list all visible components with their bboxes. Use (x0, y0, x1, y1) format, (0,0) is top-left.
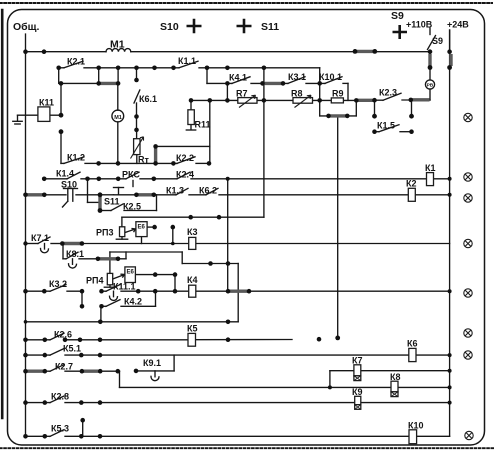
svg-text:К2: К2 (406, 179, 417, 189)
svg-text:R7: R7 (236, 89, 248, 99)
svg-text:РП3: РП3 (96, 228, 113, 238)
svg-text:К5.3: К5.3 (51, 424, 69, 434)
svg-text:К3.2: К3.2 (49, 279, 67, 289)
svg-text:+24В: +24В (447, 20, 469, 30)
svg-text:К7: К7 (352, 356, 363, 366)
svg-text:К10.1: К10.1 (319, 72, 342, 82)
svg-text:К11.1: К11.1 (113, 282, 136, 292)
svg-text:К10: К10 (408, 421, 424, 431)
svg-text:К2.4: К2.4 (176, 170, 194, 180)
svg-text:К1.4: К1.4 (56, 169, 74, 179)
svg-text:К6.1: К6.1 (139, 94, 157, 104)
svg-text:К1.2: К1.2 (67, 153, 85, 163)
svg-text:К8.1: К8.1 (66, 249, 84, 259)
svg-text:К2.6: К2.6 (54, 330, 72, 340)
svg-text:К6: К6 (407, 339, 418, 349)
svg-text:К3: К3 (187, 227, 198, 237)
svg-text:К2.1: К2.1 (67, 57, 85, 67)
svg-text:S10: S10 (61, 180, 77, 190)
svg-text:К4.2: К4.2 (124, 297, 142, 307)
svg-text:R9: R9 (332, 89, 344, 99)
svg-text:S11: S11 (261, 21, 279, 33)
svg-text:Общ.: Общ. (13, 21, 40, 33)
svg-text:К1.3: К1.3 (166, 186, 184, 196)
svg-text:К11: К11 (39, 98, 54, 108)
svg-text:К7.1: К7.1 (31, 233, 49, 243)
svg-text:Е6: Е6 (127, 270, 135, 276)
svg-text:К2.3: К2.3 (379, 88, 397, 98)
svg-text:К1.1: К1.1 (178, 56, 196, 66)
svg-text:К9: К9 (352, 387, 363, 397)
svg-text:К2.5: К2.5 (123, 202, 141, 212)
svg-text:К5.1: К5.1 (63, 344, 81, 354)
svg-text:К5: К5 (187, 324, 198, 334)
svg-text:S9: S9 (432, 36, 443, 46)
svg-text:К2.7: К2.7 (55, 362, 73, 372)
svg-text:К6.2: К6.2 (199, 186, 217, 196)
svg-text:К4.1: К4.1 (229, 73, 247, 83)
svg-text:РКС: РКС (122, 170, 140, 180)
svg-text:К2.2: К2.2 (176, 153, 194, 163)
svg-text:S10: S10 (160, 21, 179, 33)
svg-text:К1: К1 (425, 163, 436, 173)
svg-text:К8: К8 (390, 372, 401, 382)
svg-text:+110В: +110В (406, 20, 433, 30)
svg-text:РП4: РП4 (86, 276, 103, 286)
svg-text:S11: S11 (104, 197, 120, 207)
svg-text:РВ: РВ (427, 83, 434, 89)
svg-text:М1: М1 (114, 115, 122, 121)
svg-text:К2.8: К2.8 (51, 392, 69, 402)
svg-text:М1: М1 (110, 39, 125, 51)
svg-text:S9: S9 (391, 10, 404, 22)
svg-text:т: т (145, 155, 150, 165)
svg-text:К1.5: К1.5 (377, 121, 395, 131)
svg-text:К3.1: К3.1 (288, 72, 306, 82)
svg-text:R8: R8 (291, 89, 303, 99)
svg-text:К9.1: К9.1 (143, 358, 161, 368)
svg-text:К4: К4 (187, 275, 198, 285)
svg-text:Е6: Е6 (138, 225, 146, 231)
svg-text:R11: R11 (195, 120, 211, 130)
